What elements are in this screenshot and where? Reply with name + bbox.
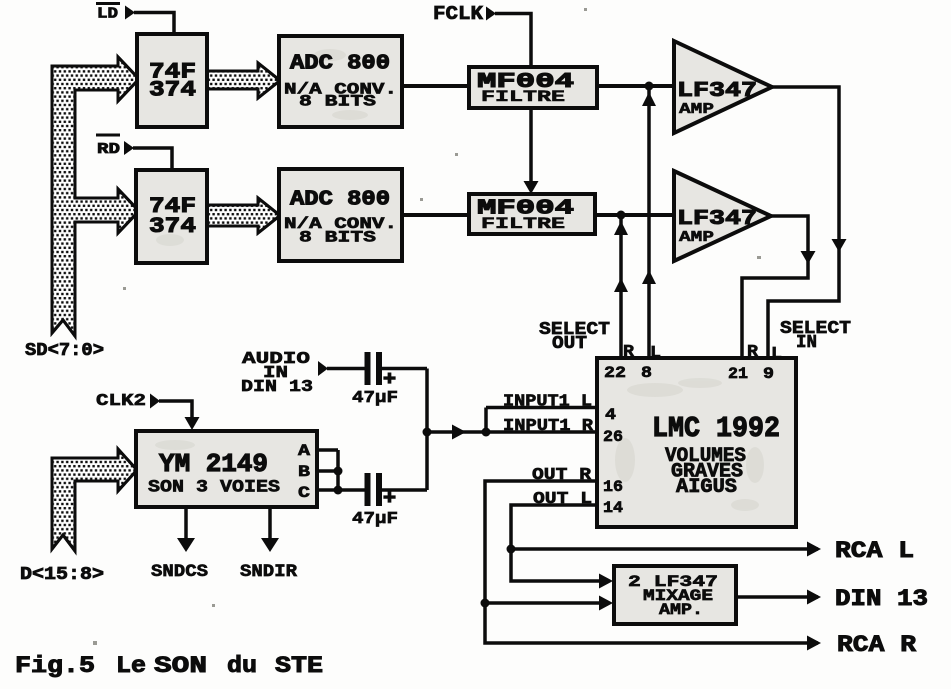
svg-text:AMP: AMP <box>679 229 714 246</box>
svg-text:DIN 13: DIN 13 <box>835 586 928 612</box>
svg-text:47µF: 47µF <box>352 389 398 408</box>
svg-text:IN: IN <box>796 333 817 353</box>
svg-text:FILTRE: FILTRE <box>481 215 565 233</box>
svg-text:AMP.: AMP. <box>659 601 703 619</box>
svg-text:du: du <box>227 653 257 679</box>
svg-text:9: 9 <box>763 365 774 383</box>
svg-text:YM 2149: YM 2149 <box>159 449 268 479</box>
svg-text:L: L <box>650 344 661 363</box>
svg-text:+: + <box>383 488 396 510</box>
svg-text:RCA R: RCA R <box>837 632 916 658</box>
svg-text:374: 374 <box>149 78 196 103</box>
svg-text:D<15:8>: D<15:8> <box>20 565 104 585</box>
svg-text:LD: LD <box>97 6 118 23</box>
svg-text:INPUT1 L: INPUT1 L <box>503 393 592 412</box>
svg-text:DIN 13: DIN 13 <box>241 378 313 397</box>
svg-text:OUT R: OUT R <box>532 466 592 485</box>
svg-text:+: + <box>383 369 396 391</box>
svg-text:Le: Le <box>116 653 146 679</box>
svg-text:RCA L: RCA L <box>835 538 914 564</box>
svg-text:R: R <box>747 343 759 362</box>
svg-text:ADC 800: ADC 800 <box>290 53 390 76</box>
svg-text:LF347: LF347 <box>677 80 757 103</box>
svg-text:B: B <box>298 463 310 481</box>
svg-text:8: 8 <box>641 364 652 382</box>
svg-text:AMP: AMP <box>679 101 714 118</box>
svg-text:21: 21 <box>728 365 748 383</box>
svg-text:R: R <box>623 343 635 362</box>
svg-text:22: 22 <box>604 364 626 382</box>
svg-text:LMC 1992: LMC 1992 <box>652 412 780 445</box>
svg-text:OUT: OUT <box>552 334 587 354</box>
svg-text:ADC 800: ADC 800 <box>290 189 390 212</box>
svg-text:STE: STE <box>275 653 323 679</box>
svg-text:26: 26 <box>603 428 623 446</box>
svg-text:AIGUS: AIGUS <box>676 476 737 499</box>
svg-text:374: 374 <box>149 214 196 239</box>
svg-text:A: A <box>298 442 310 460</box>
svg-text:INPUT1 R: INPUT1 R <box>503 417 594 436</box>
svg-text:SON: SON <box>154 653 207 679</box>
svg-text:14: 14 <box>603 499 623 517</box>
svg-text:SON 3 VOIES: SON 3 VOIES <box>148 478 280 498</box>
svg-text:FILTRE: FILTRE <box>481 88 565 106</box>
svg-text:FCLK: FCLK <box>433 3 484 25</box>
svg-text:8 BITS: 8 BITS <box>299 93 376 111</box>
svg-text:OUT L: OUT L <box>533 490 592 509</box>
svg-text:SD<7:0>: SD<7:0> <box>25 341 104 361</box>
svg-text:8 BITS: 8 BITS <box>299 229 376 247</box>
svg-text:SNDCS: SNDCS <box>151 562 208 582</box>
svg-text:CLK2: CLK2 <box>96 392 146 411</box>
svg-text:SNDIR: SNDIR <box>240 562 298 582</box>
svg-text:47µF: 47µF <box>352 510 398 529</box>
svg-text:16: 16 <box>603 478 623 496</box>
svg-text:4: 4 <box>605 406 616 424</box>
svg-text:L: L <box>771 345 782 364</box>
svg-text:Fig.5: Fig.5 <box>15 653 95 679</box>
svg-text:RD: RD <box>97 141 120 158</box>
svg-text:C: C <box>298 484 310 502</box>
svg-text:LF347: LF347 <box>677 208 757 231</box>
